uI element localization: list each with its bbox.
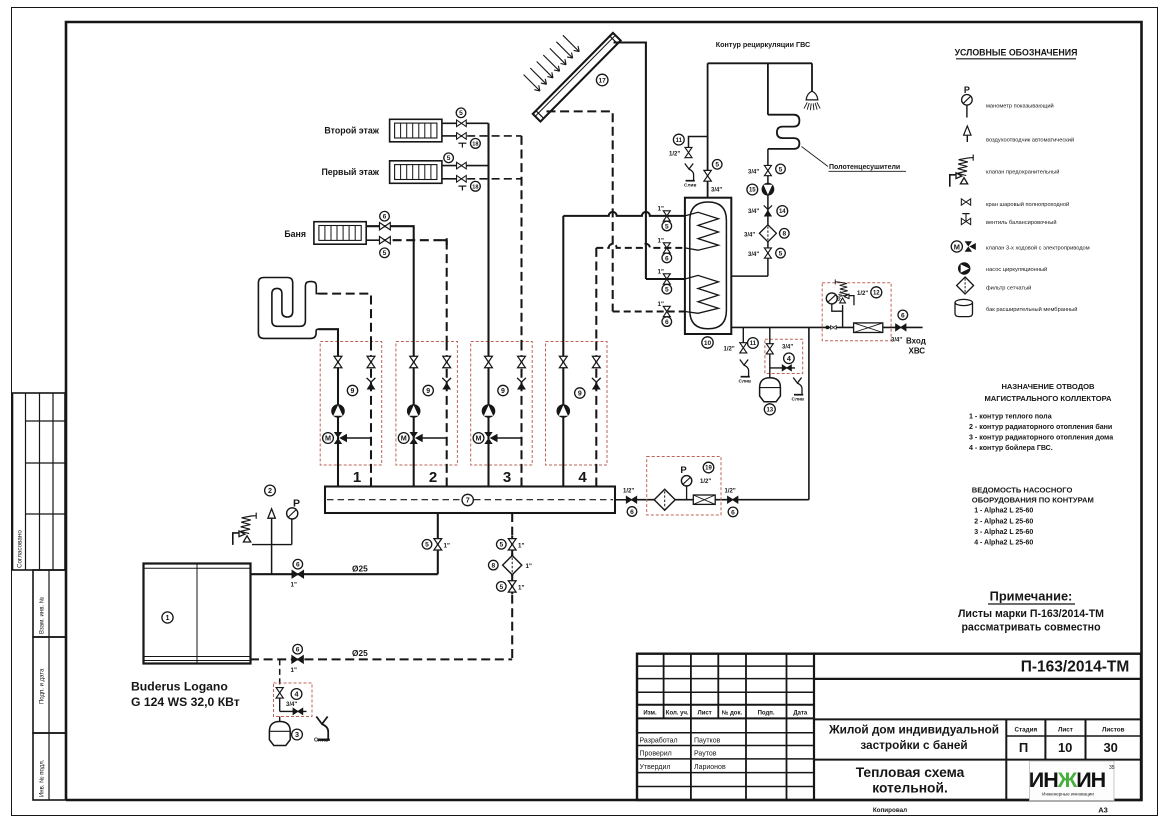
legend expansion tank symbol [955, 299, 973, 316]
wire towel riser [767, 63, 769, 114]
svg-text:бак расширительный мембранный: бак расширительный мембранный [986, 306, 1077, 313]
expansion branch wire [279, 659, 281, 687]
svg-text:Ø25: Ø25 [352, 648, 368, 658]
svg-text:4 - Alpha2 L 25-60: 4 - Alpha2 L 25-60 [974, 540, 1033, 547]
air vent 2 [268, 509, 275, 518]
logo INZHIN [1029, 761, 1115, 801]
svg-text:Слив: Слив [684, 183, 696, 189]
svg-text:насос циркуляционный: насос циркуляционный [986, 266, 1047, 273]
legend gauge symbol [962, 85, 973, 118]
svg-text:Buderus Logano: Buderus Logano [131, 680, 228, 694]
svg-text:2: 2 [429, 469, 437, 486]
wire recirc into tank [731, 275, 768, 277]
svg-text:Примечание:: Примечание: [990, 589, 1073, 604]
boiler return pipe (dashed) [250, 658, 512, 660]
svg-text:1": 1" [658, 206, 664, 213]
svg-text:1": 1" [291, 667, 297, 674]
svg-text:Листов: Листов [1102, 727, 1125, 734]
svg-text:М: М [325, 434, 331, 443]
svg-text:Второй этаж: Второй этаж [324, 125, 379, 135]
wire return banya (dashed) [366, 239, 379, 241]
svg-text:Листы марки П-163/2014-ТМ: Листы марки П-163/2014-ТМ [958, 608, 1104, 620]
radiator first floor [390, 161, 442, 184]
3-way valve M group 3 [473, 432, 497, 444]
svg-text:Тепловая схема: Тепловая схема [856, 765, 965, 780]
svg-text:Паутков: Паутков [694, 737, 721, 744]
valve on return group 2 [443, 356, 451, 367]
legend safety valve symbol [950, 155, 973, 187]
svg-text:клапан 3-х ходовой с электропр: клапан 3-х ходовой с электроприводом [986, 245, 1090, 252]
wire shower drop [811, 63, 813, 91]
svg-text:9: 9 [578, 391, 582, 398]
expansion tank 3 [279, 717, 281, 723]
drain branch near tank top [689, 137, 708, 148]
svg-text:6: 6 [296, 647, 300, 654]
svg-text:1": 1" [444, 542, 450, 549]
legend pump symbol [958, 262, 970, 274]
wire supply banya [366, 226, 414, 341]
svg-text:Ларионов: Ларионов [694, 764, 726, 771]
pump group circuit 1 red dashed box [320, 342, 382, 466]
DHW storage tank 10 [685, 198, 731, 334]
tank item circle 10 [702, 337, 713, 348]
wire supply riser group 3 [487, 342, 489, 487]
valve 1" on pipe B [663, 243, 670, 253]
svg-text:5: 5 [665, 223, 669, 230]
svg-text:6: 6 [665, 319, 669, 326]
svg-text:P: P [964, 85, 970, 95]
water meter in box 12 [854, 323, 883, 333]
svg-text:3/4": 3/4" [711, 188, 722, 194]
drain funnel near tank top [685, 164, 695, 181]
valve 1" on pipe D [663, 306, 670, 316]
make-up riser wire [808, 327, 810, 499]
valve 6 1/2 after make-up [728, 496, 738, 503]
svg-text:1/2": 1/2" [669, 151, 680, 157]
svg-text:котельной.: котельной. [872, 781, 948, 796]
svg-text:3: 3 [295, 730, 299, 739]
pump group circuit 4 red dashed box [546, 342, 608, 466]
item circle pump group 3 [498, 385, 508, 395]
solar collector 17 [533, 33, 621, 122]
svg-text:3/4": 3/4" [748, 252, 759, 258]
wire through box 12 [822, 326, 891, 328]
tank drain branch 11 [742, 327, 744, 343]
distribution manifold 7 [325, 487, 615, 514]
valve 6 supply banya [379, 222, 390, 229]
svg-text:5: 5 [499, 584, 503, 591]
svg-text:Первый этаж: Первый этаж [321, 167, 379, 177]
svg-text:Согласовано: Согласовано [17, 530, 24, 568]
svg-text:1/2": 1/2" [623, 489, 634, 495]
filter 8 on return drop [503, 556, 522, 575]
valve on supply group 1 [334, 356, 342, 367]
svg-text:2 - Alpha2 L 25-60: 2 - Alpha2 L 25-60 [974, 518, 1033, 525]
svg-text:18: 18 [472, 141, 478, 147]
svg-text:Слив: Слив [739, 379, 751, 385]
svg-text:1 - Alpha2 L 25-60: 1 - Alpha2 L 25-60 [974, 508, 1033, 515]
tank pipe D solar return (dashed) [613, 310, 685, 312]
svg-text:5: 5 [715, 162, 719, 169]
upper heating coil in tank [685, 212, 719, 250]
tank pipe C solar supply (solid) [646, 278, 685, 280]
svg-text:М: М [401, 434, 407, 443]
wire radiator supply riser [487, 123, 489, 341]
svg-text:Инженерные инновации: Инженерные инновации [1042, 792, 1094, 797]
drain funnel at boiler [316, 717, 330, 740]
svg-text:9: 9 [351, 388, 355, 395]
svg-text:Проверил: Проверил [640, 751, 672, 758]
svg-text:1": 1" [526, 563, 532, 570]
legend air vent symbol [964, 126, 971, 142]
wire return riser group 4 (dashed) [595, 342, 597, 487]
svg-text:Лист: Лист [1058, 727, 1073, 734]
pump group 1 [331, 404, 345, 418]
svg-text:1 - контур теплого пола: 1 - контур теплого пола [969, 413, 1052, 421]
recirc pump 15 [762, 183, 775, 196]
floor heating coil loop [258, 278, 318, 339]
svg-text:P: P [293, 498, 300, 510]
svg-text:№ док.: № док. [722, 710, 743, 717]
svg-text:2 - контур радиаторного отопле: 2 - контур радиаторного отопления бани [969, 423, 1112, 431]
svg-text:14: 14 [779, 209, 786, 215]
valve 5 lower on return drop [508, 581, 516, 592]
svg-text:М: М [476, 434, 482, 443]
pump group circuit 2 red dashed box [396, 342, 458, 466]
svg-text:11: 11 [750, 341, 757, 347]
wire return radiator 2nd floor [442, 135, 455, 137]
3-way valve M group 2 [398, 432, 422, 444]
valve on return group 1 [367, 356, 375, 367]
red box make-up unit 19 [647, 457, 721, 516]
svg-text:Жилой дом индивидуальной: Жилой дом индивидуальной [828, 723, 999, 737]
approvals column box (Soglasovano) [13, 393, 66, 570]
svg-text:5: 5 [425, 542, 429, 549]
svg-text:Дата: Дата [793, 711, 808, 717]
wire group4 supply riser upper [562, 216, 564, 342]
svg-text:П-163/2014-ТМ: П-163/2014-ТМ [1021, 659, 1130, 676]
valve 5 upper on return drop [508, 539, 516, 550]
boiler item number 1 [162, 612, 173, 623]
svg-text:35: 35 [1109, 765, 1115, 771]
wire supply riser group 4 [562, 342, 564, 487]
svg-text:10: 10 [1058, 740, 1072, 755]
check valve group 2 [442, 378, 451, 390]
svg-text:Раутов: Раутов [694, 751, 717, 758]
svg-text:3/4": 3/4" [748, 169, 759, 175]
wire tank top riser [707, 63, 709, 197]
valve 5 on tank top riser [704, 170, 711, 181]
svg-text:1": 1" [291, 582, 297, 589]
wire supply radiator 2nd floor [442, 122, 489, 124]
svg-text:4: 4 [578, 469, 587, 486]
valve on supply group 4 [559, 356, 567, 367]
svg-text:Ø25: Ø25 [352, 564, 368, 574]
svg-text:П: П [1019, 740, 1028, 755]
svg-text:Слив: Слив [314, 738, 329, 744]
svg-text:3 - Alpha2 L 25-60: 3 - Alpha2 L 25-60 [974, 529, 1033, 536]
svg-text:6: 6 [296, 562, 300, 569]
valve 5 return banya [379, 236, 390, 243]
make-up horizontal wire [637, 499, 809, 501]
svg-text:1/2": 1/2" [700, 479, 711, 485]
svg-text:А3: А3 [1098, 806, 1108, 815]
pressure gauge P at boiler [287, 498, 300, 520]
svg-text:1": 1" [658, 301, 664, 308]
svg-text:5: 5 [779, 250, 783, 257]
svg-text:ОБОРУДОВАНИЯ ПО КОНТУРАМ: ОБОРУДОВАНИЯ ПО КОНТУРАМ [972, 496, 1094, 505]
svg-text:10: 10 [704, 340, 712, 347]
wire solar supply (solid) [614, 43, 646, 280]
svg-text:фильтр сетчатый: фильтр сетчатый [986, 285, 1031, 292]
tank pipe B return of upper coil (dashed, with hops) [596, 244, 685, 248]
check valve group 1 [367, 378, 376, 390]
svg-text:4: 4 [295, 690, 299, 699]
svg-text:1": 1" [658, 269, 664, 276]
title block left grid [637, 654, 814, 800]
air vent riser wire [271, 518, 273, 574]
svg-text:4: 4 [787, 354, 791, 363]
expansion tank 13 [760, 378, 781, 402]
wire radiator return riser (dashed) [520, 136, 522, 342]
towel warmer coil [768, 115, 800, 149]
svg-text:ИНЖИН: ИНЖИН [1029, 768, 1106, 792]
filter 8 recirc [759, 225, 776, 242]
drain funnel tank bottom [740, 360, 750, 377]
sun ray arrows [524, 35, 580, 91]
svg-text:5: 5 [499, 542, 503, 549]
svg-text:15: 15 [749, 188, 756, 194]
svg-text:1: 1 [353, 469, 361, 486]
valve 6 on boiler supply [292, 571, 303, 578]
red box expansion group 4 [274, 683, 313, 717]
svg-text:Взам. инв. №: Взам. инв. № [39, 597, 46, 634]
water meter in make-up unit [693, 495, 715, 504]
valve 5 recirc bottom [764, 248, 771, 258]
svg-text:Кол. уч.: Кол. уч. [666, 711, 689, 717]
svg-text:УСЛОВНЫЕ ОБОЗНАЧЕНИЯ: УСЛОВНЫЕ ОБОЗНАЧЕНИЯ [955, 48, 1078, 58]
legend balancing valve symbol [962, 214, 969, 222]
mixing connector wire group 1 [346, 437, 371, 439]
svg-text:9: 9 [426, 388, 430, 395]
gauge in make-up unit [686, 486, 688, 500]
svg-text:8: 8 [782, 231, 786, 238]
svg-text:3/4": 3/4" [782, 345, 793, 351]
svg-text:12: 12 [873, 290, 880, 296]
junction dot [826, 326, 830, 330]
pump group 2 [407, 404, 421, 418]
make-up stub from manifold [615, 499, 647, 501]
valve 1" on pipe C [663, 274, 670, 284]
tank pipe A hot from group 4 (solid, with hops) [563, 212, 685, 216]
wire return radiator 1st floor [442, 178, 455, 180]
svg-text:Слив: Слив [792, 397, 804, 403]
svg-text:1/2": 1/2" [857, 291, 868, 297]
svg-text:Полотенцесушители: Полотенцесушители [829, 164, 900, 171]
svg-text:5: 5 [459, 110, 463, 117]
left stamp cell Podp.i data [33, 637, 66, 733]
svg-text:6: 6 [901, 312, 905, 319]
radiator banya [314, 222, 366, 245]
manifold supply drop wire [437, 513, 439, 574]
svg-text:30: 30 [1103, 740, 1117, 755]
svg-text:Изм.: Изм. [643, 711, 657, 717]
item circle pump group 1 [347, 385, 357, 395]
svg-text:6: 6 [665, 255, 669, 262]
svg-text:5: 5 [665, 287, 669, 294]
valve on supply group 2 [410, 356, 418, 367]
filter in make-up unit [654, 489, 675, 510]
svg-text:2: 2 [268, 486, 272, 495]
pump group circuit 3 red dashed box [471, 342, 533, 466]
wire solar return (dashed) [547, 111, 613, 311]
check valve group 4 [592, 378, 601, 390]
item circle pump group 4 [575, 388, 585, 398]
cold water pipe at tank bottom [731, 326, 822, 328]
valve 5 recirc top [764, 165, 771, 175]
svg-text:ХВС: ХВС [909, 347, 926, 356]
svg-text:Стадия: Стадия [1014, 727, 1037, 734]
gauge branch in box 12 [832, 304, 843, 311]
svg-text:Баня: Баня [284, 229, 306, 239]
wire supply radiator 1st floor [442, 165, 489, 167]
svg-text:1": 1" [518, 542, 524, 549]
wire coil return to group 1 (dashed) [319, 294, 372, 342]
svg-text:6: 6 [731, 509, 735, 516]
valve 6 on boiler return [292, 656, 303, 663]
svg-text:Копировал: Копировал [873, 807, 907, 814]
item circle pump group 2 [423, 385, 433, 395]
inlet valve 6 3/4 [896, 324, 906, 331]
svg-text:Инв. № подл.: Инв. № подл. [39, 759, 46, 797]
manifold return drop wire (dashed) [511, 513, 513, 659]
3-way valve M group 1 [323, 432, 347, 444]
gauge branch wire [252, 544, 292, 546]
wire supply riser group 2 [413, 342, 415, 487]
left stamp cell Vzam.inv. [33, 570, 66, 637]
balancing valve 18 return 1st floor [457, 175, 467, 182]
svg-text:Контур рециркуляции ГВС: Контур рециркуляции ГВС [716, 40, 810, 49]
boiler supply pipe [251, 573, 438, 575]
svg-text:3 - контур радиаторного отопле: 3 - контур радиаторного отопления дома [969, 434, 1113, 442]
collector purpose note [984, 382, 1112, 403]
svg-text:1/2": 1/2" [725, 489, 736, 495]
svg-text:клапан предохранительный: клапан предохранительный [986, 169, 1059, 176]
svg-text:6: 6 [630, 509, 634, 516]
svg-text:Разработал: Разработал [640, 736, 678, 744]
svg-text:18: 18 [472, 184, 478, 190]
safety valve branch in box 12 [842, 305, 844, 327]
wire coil supply to group 1 [319, 329, 339, 341]
check valve 14 recirc [764, 205, 772, 216]
legend ball valve symbol [961, 199, 970, 205]
check valve group 3 [517, 378, 526, 390]
shower head [804, 91, 820, 110]
svg-text:19: 19 [705, 466, 712, 472]
svg-text:9: 9 [501, 388, 505, 395]
pump group 4 [557, 404, 571, 418]
title block outline [637, 654, 1141, 800]
svg-text:5: 5 [447, 155, 451, 162]
svg-text:1: 1 [166, 613, 170, 622]
radiator second floor [390, 119, 442, 142]
drain valve of DHW expansion [770, 367, 795, 369]
expansion branch valve [769, 327, 771, 378]
safety valve at boiler [233, 513, 256, 545]
boiler K1 Buderus [144, 564, 251, 664]
svg-text:5: 5 [779, 166, 783, 173]
drain funnel DHW expansion [793, 378, 803, 395]
svg-text:13: 13 [766, 407, 773, 413]
balancing valve 18 return 2nd floor [457, 133, 467, 140]
mixing connector wire group 3 [497, 437, 522, 439]
svg-text:рассматривать совместно: рассматривать совместно [961, 622, 1101, 634]
valve 1" on pipe A [663, 211, 670, 221]
svg-text:Утвердил: Утвердил [640, 764, 671, 771]
svg-text:воздухоотводчик автоматический: воздухоотводчик автоматический [986, 137, 1074, 144]
mini check valve in box 12 [831, 325, 837, 329]
valve on supply group 3 [485, 356, 493, 367]
leader to towel label [802, 147, 829, 167]
stage cells [1014, 727, 1124, 734]
title block right grid [814, 679, 1141, 800]
left stamp cell Inv.No podl. [33, 733, 66, 800]
svg-text:G 124 WS 32,0 КВт: G 124 WS 32,0 КВт [131, 695, 240, 709]
svg-text:4 - контур бойлера ГВС.: 4 - контур бойлера ГВС. [969, 444, 1053, 452]
valve 6 1/2 right of manifold [626, 496, 636, 503]
svg-text:1/2": 1/2" [724, 346, 735, 352]
svg-text:1": 1" [518, 584, 524, 591]
svg-text:6: 6 [383, 214, 387, 221]
svg-text:Подп. и дата: Подп. и дата [40, 668, 46, 704]
red box expansion group 13 [765, 339, 803, 373]
svg-text:ВЕДОМОСТЬ НАСОСНОГО: ВЕДОМОСТЬ НАСОСНОГО [972, 486, 1073, 495]
title block signature rows [640, 736, 726, 771]
wire return riser group 1 (dashed) [370, 342, 372, 487]
lower heating coil in tank [685, 275, 719, 313]
svg-text:3/4": 3/4" [748, 209, 759, 215]
pump group 3 [482, 404, 496, 418]
svg-text:НАЗНАЧЕНИЕ ОТВОДОВ: НАЗНАЧЕНИЕ ОТВОДОВ [1001, 382, 1095, 391]
svg-text:застройки с баней: застройки с баней [860, 738, 967, 752]
svg-text:3/4": 3/4" [891, 338, 902, 344]
svg-text:3/4": 3/4" [286, 702, 297, 708]
title block header labels [643, 710, 808, 717]
wire recirc top [708, 62, 812, 64]
valve on return group 3 [518, 356, 526, 367]
wire recirc chain [767, 149, 769, 276]
wire return riser group 2 (dashed) [446, 342, 448, 487]
pump list note [972, 486, 1094, 505]
svg-text:11: 11 [676, 138, 683, 144]
svg-text:М: М [954, 242, 960, 251]
wire group4 return riser upper (dashed) [595, 248, 597, 342]
valve 5 on supply drop [434, 539, 442, 550]
svg-text:P: P [680, 465, 687, 476]
svg-text:5: 5 [383, 250, 387, 257]
valve 5 supply 1st floor [457, 162, 467, 169]
wire supply riser group 1 [337, 342, 339, 487]
svg-text:17: 17 [599, 77, 607, 84]
mixing connector wire group 2 [422, 437, 447, 439]
red box water inlet unit 12 [822, 283, 891, 341]
legend 3-way valve symbol [951, 241, 976, 252]
legend filter symbol [957, 277, 974, 294]
svg-text:3/4": 3/4" [744, 232, 755, 238]
svg-text:8: 8 [491, 562, 495, 569]
wire return riser group 3 (dashed) [520, 342, 522, 487]
drain valve of expansion group [280, 710, 307, 712]
